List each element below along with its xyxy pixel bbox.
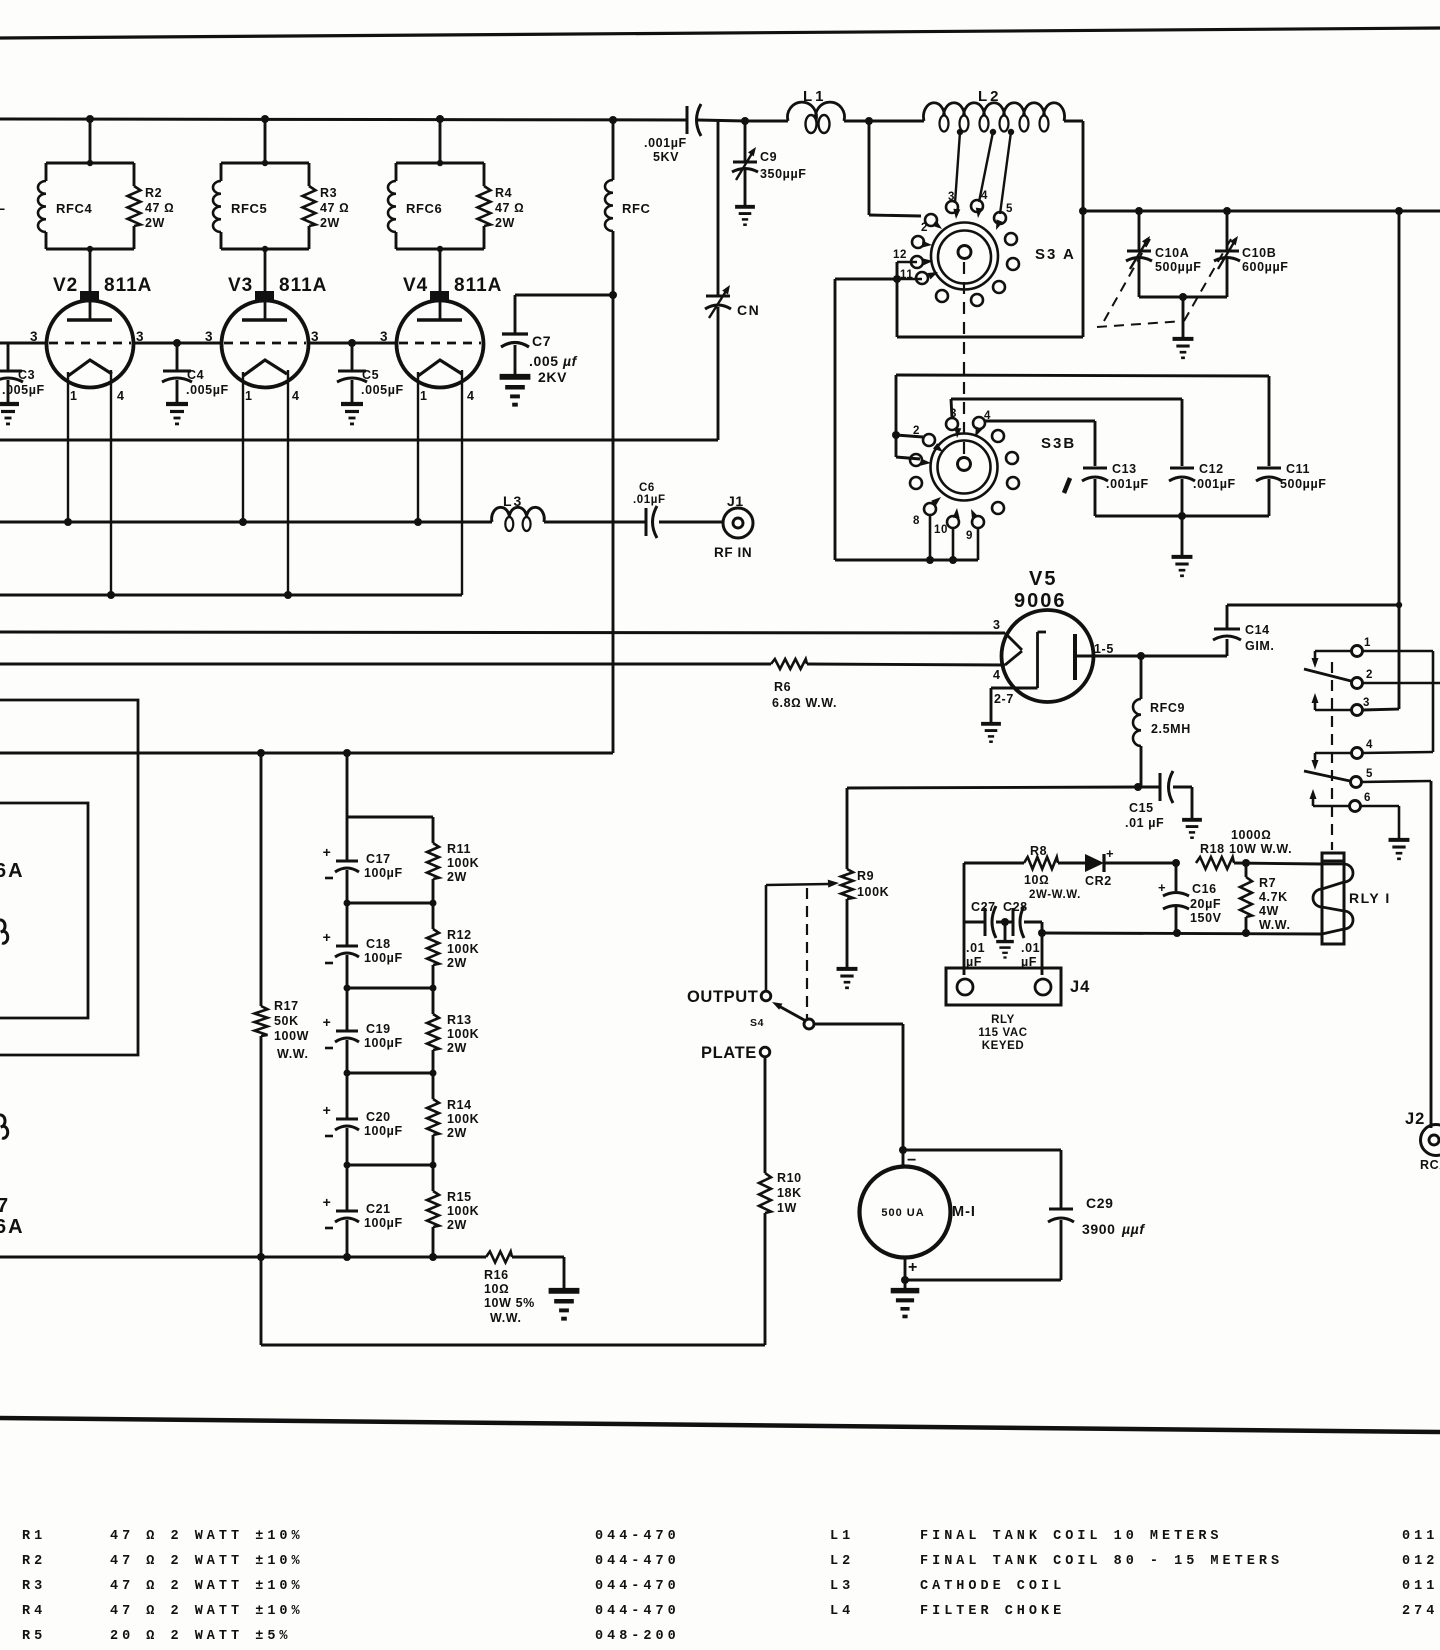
inductor RFC5 [221,162,309,165]
node V2 pin4 [107,591,115,599]
svg-text:47 Ω 2 WATT ±10%: 47 Ω 2 WATT ±10% [110,1604,304,1619]
dashed gang S4 [806,888,808,1018]
svg-text:C19: C19 [366,1022,391,1036]
svg-text:.001µF: .001µF [644,136,687,150]
svg-text:C3: C3 [18,368,35,382]
node C21 bottom [343,1253,351,1261]
wire filament rail 1 / cathode RF line [0,521,492,524]
wire T1 to T4 loop [1362,650,1433,653]
node L1/L2 junction [865,117,873,125]
svg-text:500µµF: 500µµF [1280,477,1327,491]
svg-text:3: 3 [948,191,955,203]
svg-text:C15: C15 [1129,801,1154,815]
wire S3A 12 to 11 junction [897,261,917,264]
svg-text:+: + [323,1102,332,1118]
svg-text:811A: 811A [279,275,327,296]
svg-text:.01µF: .01µF [633,494,666,506]
capacitor C20 100UF [346,1073,349,1119]
dashed relay linkage [1331,662,1333,850]
S3B wiper arrows [933,443,943,452]
node V4 pin1 [414,518,422,526]
svg-text:1000Ω: 1000Ω [1231,828,1271,842]
relay contact 6 arm [1313,805,1349,808]
connector J1 RF IN [723,508,753,538]
svg-text:PLATE: PLATE [701,1044,757,1062]
svg-text:J1: J1 [727,493,744,509]
svg-text:+: + [323,1194,332,1210]
svg-text:1: 1 [420,389,428,403]
svg-text:C21: C21 [366,1202,391,1216]
tube V4 811A [397,301,484,388]
svg-text:2W: 2W [495,216,515,230]
svg-text:100K: 100K [447,942,479,956]
relay contact arm 4-5 [1315,752,1351,755]
svg-text:2W: 2W [447,870,467,884]
svg-text:10Ω: 10Ω [484,1282,509,1296]
svg-text:R7: R7 [1259,876,1276,890]
capacitor C13 .001UF [1083,467,1107,470]
svg-text:C16: C16 [1192,882,1217,896]
svg-text:C28: C28 [1003,900,1028,914]
node filter bank top [343,749,351,757]
svg-text:µµf: µµf [1121,1221,1145,1237]
resistor R3 47 ohm 2W [308,163,311,186]
svg-text:W.W.: W.W. [490,1311,522,1325]
capacitor C29 3900uuf [903,1149,1061,1152]
svg-text:4: 4 [993,668,1001,682]
svg-text:RF IN: RF IN [714,545,752,560]
svg-text:048-200: 048-200 [595,1629,680,1644]
wire bias return bus [0,1256,486,1259]
svg-text:RFC4: RFC4 [56,201,93,216]
svg-text:2W: 2W [145,216,165,230]
wire plate HV bus [0,119,687,120]
node R15 bottom [429,1253,437,1261]
svg-text:12: 12 [893,249,907,261]
svg-text:R18: R18 [1200,842,1225,856]
svg-text:R3: R3 [22,1579,46,1594]
wire bank rung [347,902,433,905]
rotary switch S3A [931,223,998,290]
svg-text:M-I: M-I [952,1204,976,1220]
svg-text:100K: 100K [447,1204,479,1218]
svg-text:L1: L1 [803,88,827,105]
svg-text:KEYED: KEYED [982,1040,1025,1052]
resistor R4 47 ohm 2W [483,163,486,186]
svg-text:.005µF: .005µF [186,383,229,397]
switch S4 arm [777,1005,806,1021]
wire V5 grid line [0,632,1005,633]
svg-text:R10: R10 [777,1171,802,1185]
svg-text:R12: R12 [447,928,472,942]
inductor RFC4 [46,162,134,165]
svg-text:S3 A: S3 A [1035,246,1076,263]
node R17 top [257,749,265,757]
svg-text:47 Ω: 47 Ω [145,201,174,215]
svg-text:L3: L3 [503,493,523,509]
svg-text:500 UA: 500 UA [881,1207,924,1219]
svg-text:RFC9: RFC9 [1150,701,1185,715]
svg-text:274: 274 [1402,1604,1438,1619]
svg-text:.005µF: .005µF [2,383,45,397]
capacitor C7 .005uf 2KV [514,295,517,333]
svg-text:.01: .01 [1021,941,1040,955]
node plate bus / RFC5 riser [261,115,269,123]
svg-text:L1: L1 [830,1529,854,1544]
svg-text:R14: R14 [447,1098,472,1112]
svg-text:+: + [323,844,332,860]
resistor R18 1000 ohm 10W [1196,857,1234,869]
wire grid bus [0,342,47,345]
rotary switch S3B [931,434,998,501]
inductor L3 cathode coil [492,507,545,522]
svg-text:044-470: 044-470 [595,1579,680,1594]
svg-text:J4: J4 [1070,978,1090,996]
svg-text:GIM.: GIM. [1245,639,1274,653]
svg-text:2W-W.W.: 2W-W.W. [1029,889,1081,901]
wire neutralizing line [0,439,718,442]
resistor R12 100K 2W [432,903,435,929]
svg-text:L4: L4 [830,1604,854,1619]
svg-text:2KV: 2KV [538,369,567,385]
svg-text:6A: 6A [0,860,25,882]
wire bias feed [0,752,613,755]
svg-text:6: 6 [1364,792,1371,804]
svg-text:L3: L3 [830,1579,854,1594]
svg-text:100K: 100K [447,1027,479,1041]
resistor R2 47 ohm 2W [133,163,136,186]
tube V2 811A [47,301,134,388]
svg-text:47 Ω 2 WATT ±10%: 47 Ω 2 WATT ±10% [110,1529,304,1544]
svg-text:L2: L2 [830,1554,854,1569]
node plate bus / RFC6 riser [436,115,444,123]
svg-text:4: 4 [1366,739,1373,751]
svg-text:100µF: 100µF [364,951,403,965]
wire C14 to relay contact 3 net [1227,604,1399,607]
svg-text:4: 4 [292,389,300,403]
wire bank top [346,753,349,817]
wire V5 filament line with R6 [0,663,771,666]
svg-text:C14: C14 [1245,623,1270,637]
wire S4 pivot to meter [814,1023,903,1026]
svg-text:−: − [907,1152,917,1169]
svg-text:100µF: 100µF [364,866,403,880]
svg-text:115 VAC: 115 VAC [978,1027,1027,1039]
svg-text:2W: 2W [320,216,340,230]
wire S3B contact3 net to C12 [951,399,952,418]
svg-text:20µF: 20µF [1190,897,1221,911]
svg-text:C6: C6 [639,482,655,494]
resistor R13 100K 2W [432,988,435,1014]
dashed gang S3A-S3B [963,262,965,462]
svg-text:5: 5 [1366,768,1373,780]
wire L2 tap 5 [1008,129,1014,135]
svg-text:R1: R1 [22,1529,46,1544]
svg-text:10Ω: 10Ω [1024,873,1049,887]
wire S3A wiper to S3B wiper rail [835,278,897,281]
capacitor C14 GIM [1141,655,1227,658]
svg-text:.001µF: .001µF [1106,477,1149,491]
capacitor C9 350UUF variable [744,121,747,161]
svg-text:R6: R6 [774,680,791,694]
svg-text:RFC5: RFC5 [231,201,267,216]
node C27-C28 ground [996,921,1013,924]
svg-text:R3: R3 [320,186,337,200]
node C16 top [1172,859,1180,867]
svg-text:+: + [908,1259,918,1276]
wire S3B contact2 net to C11 [896,435,923,437]
svg-text:6.8Ω W.W.: 6.8Ω W.W. [772,696,837,710]
wire bus to relay contact 3 [1395,207,1403,215]
terminal PLATE [760,1047,770,1057]
wire relay bottom node [1042,933,1322,934]
svg-text:R9: R9 [857,869,874,883]
node C10A [1135,207,1143,215]
svg-text:6: 6 [0,840,1,857]
node R17 bottom [257,1253,265,1261]
wire bank rung [347,1164,433,1167]
svg-text:011: 011 [1402,1579,1438,1594]
connector J4 RLY 115VAC KEYED [963,922,966,975]
svg-text:J2: J2 [1405,1110,1425,1128]
wire C10 bottom rung [1139,296,1227,299]
svg-text:FINAL TANK COIL 80 - 15 METER: FINAL TANK COIL 80 - 15 METERS [920,1554,1283,1569]
svg-text:2: 2 [1366,669,1373,681]
svg-text:C9: C9 [760,150,777,164]
svg-text:10W 5%: 10W 5% [484,1296,535,1310]
wire riser to RFC5/R3 [264,119,267,163]
svg-text:V4: V4 [403,275,428,296]
svg-text:100µF: 100µF [364,1216,403,1230]
svg-text:2-7: 2-7 [994,692,1014,706]
wire S3B contacts 8 9 10 rail [929,515,932,560]
svg-text:600µµF: 600µµF [1242,260,1289,274]
wire bias line [847,787,1138,788]
resistor R7 4.7K 4W [1245,863,1248,877]
resistor R14 100K 2W [432,1073,435,1099]
dashed gang C10A/C10B [1104,239,1150,321]
svg-text:6A: 6A [0,1216,25,1238]
svg-text:+: + [323,1014,332,1030]
svg-text:1: 1 [70,389,78,403]
svg-text:4.7K: 4.7K [1259,890,1288,904]
wire S3B wiper lower [895,435,898,457]
wire riser to RFC6/R4 [439,119,442,163]
wire T6 to ground [1360,805,1399,808]
wire riser to RFC4/R2 [89,119,92,163]
svg-text:20 Ω 2 WATT ±5%: 20 Ω 2 WATT ±5% [110,1629,292,1644]
diode CR2 [1058,862,1085,865]
node C10B [1223,207,1231,215]
svg-text:8: 8 [913,515,920,527]
svg-text:3: 3 [993,618,1001,632]
svg-text:100K: 100K [857,885,889,899]
svg-text:V5: V5 [1029,568,1057,590]
terminal 4 [1352,748,1363,759]
svg-text:CATHODE COIL: CATHODE COIL [920,1579,1065,1594]
resistor R11 100K 2W [432,817,435,843]
svg-text:18K: 18K [777,1186,802,1200]
svg-text:500µµF: 500µµF [1155,260,1202,274]
inductor RFC9 2.5MH [1140,656,1143,699]
svg-text:R4: R4 [495,186,512,200]
node C9 junction [741,117,749,125]
svg-text:RLY I: RLY I [1349,890,1391,906]
capacitor C10A 500UUF variable [1138,211,1141,250]
capacitor C16 20UF 150V [1175,863,1178,891]
wire L2 tap 3 [957,129,963,135]
svg-text:C7: C7 [532,333,551,349]
wire T3 from tank [1362,709,1399,710]
svg-text:W.W.: W.W. [277,1047,309,1061]
meter bottom to ground [904,1258,907,1288]
svg-text:C29: C29 [1086,1195,1113,1211]
svg-text:CN: CN [737,302,760,318]
svg-text:47 Ω 2 WATT ±10%: 47 Ω 2 WATT ±10% [110,1554,304,1569]
svg-text:R16: R16 [484,1268,509,1282]
rectifier winding fragment 2 [0,1115,8,1138]
svg-text:044-470: 044-470 [595,1529,680,1544]
svg-text:FINAL TANK COIL 10 METERS: FINAL TANK COIL 10 METERS [920,1529,1223,1544]
svg-text:CR2: CR2 [1085,874,1112,888]
inductor L2 final tank coil 80-15m [924,103,1065,121]
svg-text:47 Ω: 47 Ω [320,201,349,215]
svg-text:811A: 811A [454,275,502,296]
svg-text:R17: R17 [274,999,299,1013]
svg-text:L2: L2 [978,88,1002,105]
svg-text:+: + [1158,880,1166,895]
node meter top [899,1146,907,1154]
V5 cathode ground 2-7 [991,687,1038,690]
node V3 pin1 [239,518,247,526]
svg-text:.005µF: .005µF [361,383,404,397]
svg-text:R8: R8 [1030,844,1047,858]
wire RFC5 box bottom [221,248,309,251]
node plate bus / RFC riser [609,116,617,124]
capacitor C3 .005UF [7,343,10,370]
svg-text:S4: S4 [750,1017,764,1029]
svg-text:C27: C27 [971,900,996,914]
wire bank rung [347,1072,433,1075]
resistor R17 50K 100W [260,753,263,1006]
capacitor C17 100UF [346,817,349,861]
capacitor C6 .01UF [645,508,648,536]
svg-text:S3B: S3B [1041,435,1076,452]
svg-text:C11: C11 [1286,462,1310,476]
capacitor C28 .01UF [1012,908,1015,936]
capacitor C10B 600UUF variable [1226,211,1229,250]
svg-text:µf: µf [562,353,578,369]
inductor L1 final tank coil 10m [745,120,788,123]
node V2 pin1 [64,518,72,526]
svg-text:.01 µF: .01 µF [1125,816,1164,830]
svg-text:R15: R15 [447,1190,472,1204]
wire tube pin drops [67,372,69,522]
svg-text:47 Ω 2 WATT ±10%: 47 Ω 2 WATT ±10% [110,1579,304,1594]
svg-text:100W: 100W [274,1029,309,1043]
svg-text:012: 012 [1402,1554,1438,1569]
svg-text:RLY: RLY [991,1014,1015,1026]
terminal OUTPUT [761,991,771,1001]
node R7 top [1242,859,1250,867]
svg-text:.01: .01 [966,941,985,955]
R9 wiper arm from S4 output [766,884,828,885]
svg-text:100K: 100K [447,856,479,870]
svg-text:2W: 2W [447,1218,467,1232]
svg-text:2W: 2W [447,956,467,970]
wire bank rung [347,987,433,990]
svg-text:R2: R2 [145,186,162,200]
svg-text:C13: C13 [1112,462,1137,476]
svg-text:9: 9 [966,530,973,542]
capacitor .001UF 5KV [686,106,689,134]
terminal 3 [1352,705,1363,716]
resistor R16 10 ohm [486,1252,512,1263]
capacitor C15 .01UF [1138,786,1160,789]
svg-text:V3: V3 [228,275,253,296]
wire RFC6 box bottom [396,248,484,251]
relay RLY1 coil [1322,853,1344,944]
node V3 pin4 [284,591,292,599]
svg-text:100µF: 100µF [364,1124,403,1138]
wire tap to contact 2 [868,121,871,215]
border top rule [0,28,1440,38]
svg-text:.005: .005 [529,353,559,369]
svg-text:350µµF: 350µµF [760,167,807,181]
terminal 2 [1352,678,1363,689]
svg-text:R4: R4 [22,1604,46,1619]
svg-text:RCA: RCA [1420,1158,1440,1172]
wire filament rail 2 [0,594,462,597]
capacitor C4 .005UF [176,343,179,370]
svg-text:R13: R13 [447,1013,472,1027]
svg-text:RFC: RFC [622,201,651,216]
svg-text:1: 1 [245,389,253,403]
wire tank output bus [1083,210,1440,213]
relay contact 3 arm [1315,709,1351,712]
svg-text:R2: R2 [22,1554,46,1569]
S3A wiper arrows [922,241,932,248]
terminal 5 [1351,777,1362,788]
capacitor C18 100UF [346,903,349,946]
resistor R15 100K 2W [432,1165,435,1191]
svg-text:C18: C18 [366,937,391,951]
svg-text:C17: C17 [366,852,391,866]
svg-text:1-5: 1-5 [1094,642,1114,656]
svg-text:C4: C4 [187,368,204,382]
svg-text:044-470: 044-470 [595,1554,680,1569]
wire RFC4 box bottom [46,248,134,251]
svg-text:+: + [323,929,332,945]
capacitor C27 .01UF [964,921,985,924]
inductor RFC6 [396,162,484,165]
svg-text:C5: C5 [362,368,379,382]
svg-text:C12: C12 [1199,462,1224,476]
wire L2 to S3A frame [1082,121,1085,337]
node plate bus / RFC4 riser [86,115,94,123]
svg-text:C10B: C10B [1242,246,1276,260]
svg-text:4: 4 [981,190,988,202]
svg-text:2.5MH: 2.5MH [1151,722,1191,736]
svg-text:011: 011 [1402,1529,1438,1544]
svg-text:5KV: 5KV [653,150,679,164]
svg-text:4: 4 [467,389,475,403]
capacitor CN neutralizing [717,120,720,295]
capacitor C19 100UF [346,988,349,1031]
wire S3B contact4 net to C13 [985,420,1095,423]
resistor R8 10 ohm 2W [964,862,1024,865]
border bottom rule [0,1418,1440,1432]
